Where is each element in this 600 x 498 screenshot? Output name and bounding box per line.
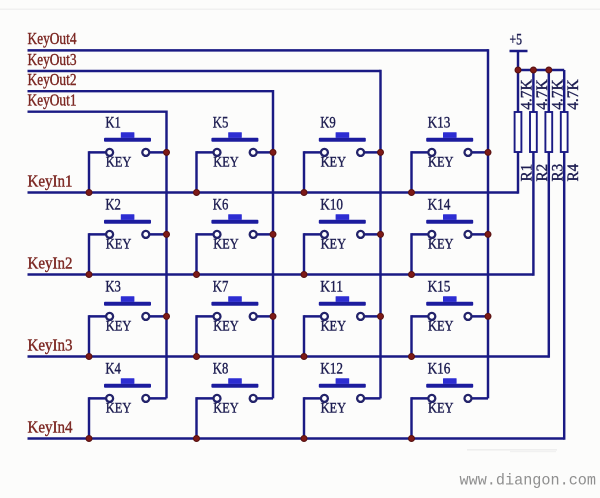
svg-text:K1: K1 [105, 113, 121, 131]
svg-text:K14: K14 [428, 195, 451, 213]
svg-text:K8: K8 [213, 359, 229, 377]
svg-text:KEY: KEY [428, 237, 454, 253]
svg-text:KeyOut1: KeyOut1 [28, 91, 77, 110]
svg-text:KEY: KEY [213, 155, 239, 171]
svg-text:K13: K13 [428, 113, 451, 131]
svg-text:KeyOut2: KeyOut2 [28, 70, 77, 89]
svg-text:KEY: KEY [428, 401, 454, 417]
svg-text:KeyIn2: KeyIn2 [28, 254, 73, 273]
svg-text:www.diangon.com: www.diangon.com [460, 472, 597, 490]
svg-text:KeyIn1: KeyIn1 [28, 172, 73, 191]
svg-text:+5: +5 [510, 32, 523, 49]
svg-text:K12: K12 [320, 359, 343, 377]
svg-text:KeyIn3: KeyIn3 [28, 336, 73, 355]
svg-text:KEY: KEY [213, 401, 239, 417]
svg-text:K16: K16 [428, 359, 451, 377]
svg-text:KEY: KEY [106, 155, 132, 171]
svg-text:KEY: KEY [321, 401, 347, 417]
svg-text:KEY: KEY [321, 319, 347, 335]
svg-text:KEY: KEY [106, 319, 132, 335]
svg-text:KeyOut3: KeyOut3 [28, 50, 77, 69]
svg-text:K6: K6 [213, 195, 229, 213]
svg-text:KEY: KEY [428, 155, 454, 171]
svg-text:K2: K2 [105, 195, 121, 213]
svg-text:KEY: KEY [428, 319, 454, 335]
svg-text:KEY: KEY [213, 237, 239, 253]
svg-text:KEY: KEY [321, 237, 347, 253]
svg-text:K5: K5 [213, 113, 229, 131]
svg-text:KEY: KEY [321, 155, 347, 171]
svg-text:KEY: KEY [106, 237, 132, 253]
svg-text:R4: R4 [565, 164, 582, 182]
svg-text:KeyIn4: KeyIn4 [28, 418, 73, 437]
svg-text:KEY: KEY [213, 319, 239, 335]
svg-text:K11: K11 [320, 277, 343, 295]
svg-text:KEY: KEY [106, 401, 132, 417]
svg-text:K9: K9 [320, 113, 336, 131]
svg-text:K3: K3 [105, 277, 121, 295]
svg-text:K15: K15 [428, 277, 451, 295]
svg-text:K10: K10 [320, 195, 343, 213]
svg-text:K7: K7 [213, 277, 229, 295]
svg-text:4.7K: 4.7K [565, 79, 582, 110]
svg-text:KeyOut4: KeyOut4 [28, 29, 77, 48]
svg-text:K4: K4 [105, 359, 121, 377]
